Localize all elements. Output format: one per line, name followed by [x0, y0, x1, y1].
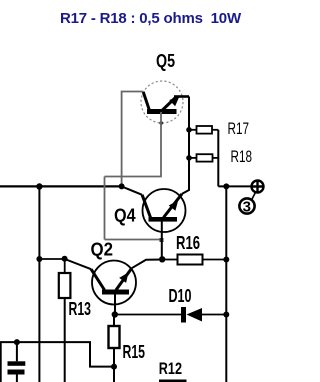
wire: R15 top lead — [113, 315, 115, 327]
node: Q2 base / D10 / R15 junction — [112, 311, 118, 317]
wire: Q5 emitter stub to vertical — [174, 95, 189, 98]
transistor Q4 collector branch — [142, 195, 150, 218]
transistor Q4 outline — [143, 189, 186, 232]
node: Q5 base circle crossing mark — [159, 121, 163, 125]
node: rail / left branch junction — [36, 183, 42, 189]
wire: D10 anode-side wire — [115, 314, 181, 316]
svg-text:R12: R12 — [159, 359, 182, 378]
capacitor plate bottom — [8, 370, 25, 375]
transistor Q2 base bar — [102, 290, 129, 295]
resistor R13 — [59, 273, 71, 298]
transistor Q2 outline — [92, 261, 136, 305]
wire: cut-off left edge conductor — [0, 342, 2, 382]
resistor R17 — [189, 129, 197, 131]
resistor R16 — [162, 259, 177, 261]
wire: left vertical bus x=39 — [38, 186, 40, 382]
wire: R15 bottom lead — [113, 348, 115, 382]
transistor Q5 emitter branch with arrow — [162, 98, 176, 111]
terminal: plus screw — [252, 181, 264, 193]
diode D10 cathode bar — [181, 307, 186, 323]
wire: bottom feedback wire with step — [0, 342, 114, 367]
wire: Q2 collector wire to junction — [65, 259, 91, 269]
wire: Q4 collector wire from rail — [122, 186, 143, 194]
transistor Q2 collector branch — [91, 269, 104, 290]
transistor Q5 collector branch — [143, 92, 149, 111]
wire: gray link left — [105, 176, 162, 178]
wire: capacitor bottom lead — [16, 375, 18, 382]
capacitor plate top — [8, 361, 26, 366]
wire: capacitor top lead — [16, 342, 18, 361]
svg-text:Q5: Q5 — [156, 51, 175, 71]
resistor R12 (cut off at bottom edge) — [159, 380, 187, 382]
node: gray link end dot — [160, 238, 164, 242]
wire: Q2 emitter wire to R16 junction — [132, 260, 163, 269]
wire: Q5 collector gray wire (left + down to rail) — [122, 92, 144, 187]
wire: right vertical bus x=226 — [225, 186, 227, 382]
node: R15 bottom junction — [111, 364, 117, 370]
node: rail / Q5 collector / Q4 collector junction — [119, 183, 125, 189]
wire: R17/R18 right vertical down to output node — [217, 130, 219, 187]
wire: gray link bottom to Q4 base — [105, 239, 162, 241]
node: R13 top / Q2 collector junction — [62, 256, 68, 262]
resistor R15 — [109, 326, 120, 348]
wire: Q5 base gray wire down — [160, 112, 162, 177]
svg-text:R16: R16 — [176, 233, 200, 253]
node: R17 left tap — [186, 127, 192, 133]
node: R16 left / Q4 base / Q2 emitter junction — [159, 256, 165, 262]
svg-text:Q2: Q2 — [91, 240, 114, 260]
svg-text:R15: R15 — [123, 342, 146, 362]
wire: D10 right wire — [202, 314, 226, 316]
svg-text:R17: R17 — [228, 119, 250, 138]
node: output junction — [223, 183, 229, 189]
svg-text:Q4: Q4 — [114, 206, 136, 226]
node: left bus / R13 branch junction — [36, 256, 42, 262]
wire: output node horizontal to terminal — [218, 185, 251, 187]
transistor Q4 base bar — [149, 217, 178, 222]
node: R16 right junction — [223, 257, 229, 263]
transistor Q5 base bar — [147, 109, 177, 114]
svg-text:D10: D10 — [169, 286, 192, 306]
wire: gray link down left side — [104, 177, 106, 240]
wire: +V supply rail y=186 — [0, 185, 122, 187]
wire: Q4 base lead down — [161, 222, 163, 259]
svg-text:R17 - R18 : 0,5 ohms 10W: R17 - R18 : 0,5 ohms 10W — [60, 10, 242, 27]
node: D10 right junction — [223, 312, 229, 318]
diode D10 triangle — [187, 308, 203, 322]
node: R18 left tap — [186, 155, 192, 161]
wire: link plus to circle 3 — [252, 193, 256, 200]
transistor Q5 outline (dotted circle) — [141, 81, 183, 123]
svg-text:R13: R13 — [69, 299, 92, 319]
node: terminal 3 — [239, 198, 254, 213]
wire: horizontal link to R13 top — [39, 258, 64, 260]
resistor R18 — [189, 157, 197, 159]
wire: Q4 emitter to vertical — [182, 97, 189, 194]
svg-text:R18: R18 — [231, 147, 253, 166]
transistor Q2 emitter branch with arrow — [116, 268, 132, 290]
node: capacitor junction — [14, 339, 20, 345]
wire: R13 top lead — [64, 259, 66, 274]
transistor Q4 emitter branch with arrow — [164, 194, 182, 218]
svg-text:3: 3 — [243, 199, 251, 216]
wire: R13 bottom lead to bottom edge — [64, 298, 66, 382]
wire: Q2 base lead down — [114, 295, 116, 315]
